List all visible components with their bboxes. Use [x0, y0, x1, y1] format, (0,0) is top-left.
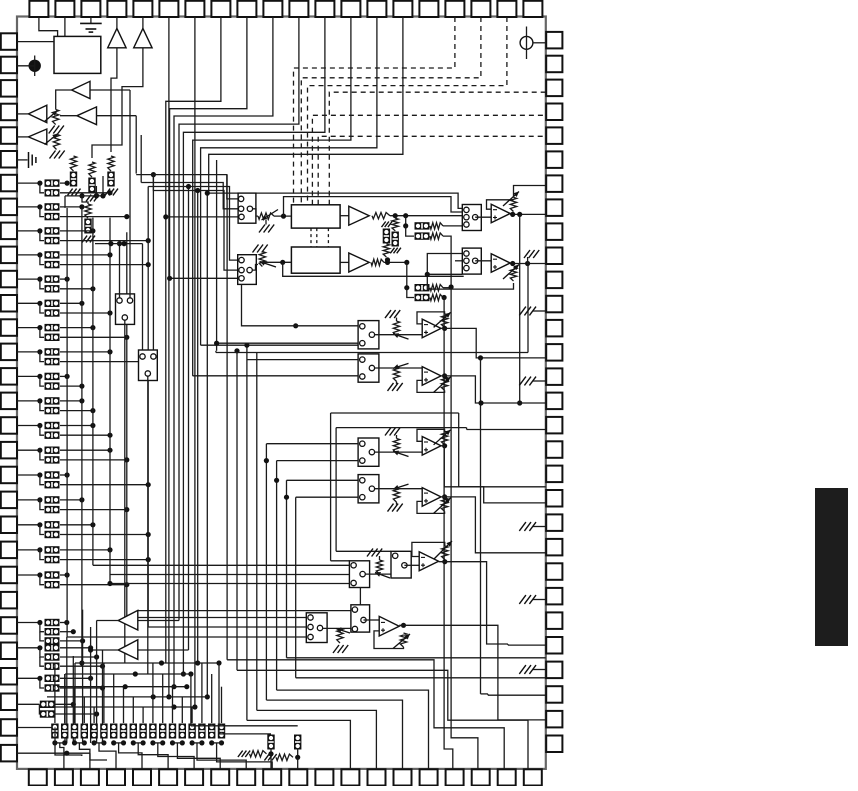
wire top pin12 elbow: [183, 17, 325, 674]
top pin 4: [107, 1, 126, 17]
wire I out: [399, 625, 546, 720]
wire clamp pair 1: [75, 742, 85, 744]
wire S1 out: [124, 321, 126, 664]
bottom pin 15: [394, 769, 412, 785]
ground row6: [333, 645, 348, 653]
right pin 14: [546, 344, 562, 361]
junction r2 a: [133, 671, 138, 676]
wire pin11 lower out: [60, 288, 93, 290]
right pin 16: [546, 393, 562, 410]
junction opamp B node: [525, 261, 530, 266]
clamp diode box 15: [198, 724, 205, 739]
wire ground r27: [533, 669, 546, 671]
wire Lh2b right: [466, 428, 468, 430]
junction pin22 upper bus: [107, 547, 112, 552]
wire row4 fb: [417, 501, 445, 513]
diode box pin11 upper: [45, 275, 60, 282]
wire pin14 upper out: [60, 351, 110, 353]
junction left pin9: [37, 228, 42, 233]
junction pin25 bus 1: [71, 629, 76, 634]
top pin 6: [159, 1, 178, 17]
wire left pin2 to dot: [17, 65, 35, 67]
diode box pin16 upper: [45, 397, 60, 404]
dashed wire top pin19: [308, 17, 507, 205]
wire clamp box 5 stem: [103, 663, 105, 723]
wire left pin18: [17, 449, 40, 451]
wire left pin25: [17, 622, 40, 624]
clamp diode box 11: [159, 724, 166, 739]
IC package body outline: [17, 17, 546, 769]
bus line Lc: [92, 218, 94, 566]
ground R-F: [50, 151, 65, 159]
substrate dot: [29, 60, 41, 72]
wire pair2 lower: [407, 288, 414, 298]
bottom pin 16: [420, 769, 438, 785]
wire n2 up: [95, 186, 97, 196]
bus line B2: [236, 351, 238, 671]
top pin 12: [315, 1, 334, 17]
junction pin28 bus b: [94, 711, 99, 716]
junction r1 a: [159, 660, 164, 665]
diode box pin20 upper: [45, 496, 60, 503]
left pin 9: [1, 223, 17, 240]
oscillator pad symbol: [520, 36, 533, 49]
junction clamp box 5: [101, 740, 106, 745]
junction left pin27: [37, 676, 42, 681]
wire pin11 lower branch: [40, 279, 44, 289]
wire top pin8 elbow: [166, 17, 221, 663]
op-amp row1: [422, 319, 441, 338]
select box row4: [358, 475, 379, 503]
varistor arrow fbB: [503, 265, 519, 280]
diode box pin25 c: [45, 637, 60, 644]
wire pin25 b branch: [40, 623, 44, 632]
bus line La: [66, 208, 68, 637]
junction clamp box 3: [82, 740, 87, 745]
bus line bb1: [66, 637, 68, 743]
wire ground r24: [533, 599, 546, 601]
ground R-E: [49, 126, 64, 134]
select box H: [391, 551, 411, 578]
select box G: [349, 561, 369, 588]
diode box pin10 lower: [45, 261, 60, 268]
diode box pin10 upper: [45, 251, 60, 258]
ground symbol r21: [519, 522, 536, 531]
junction pin6 r4: [166, 694, 171, 699]
wire Lh2 left: [330, 413, 332, 561]
wire box H to opamp G: [404, 564, 419, 566]
ground vol1: [259, 225, 274, 233]
junction pin21 lower bus: [146, 532, 151, 537]
dashed wire right pin4 cfg: [312, 115, 545, 205]
diode box clamp col C: [107, 172, 114, 187]
left pin 11: [1, 271, 17, 288]
junction clamp box 7: [121, 740, 126, 745]
select box I: [351, 605, 370, 632]
wire pin28 upper out: [55, 703, 73, 705]
wire h-C S1 third: [166, 216, 238, 218]
ground opamp B: [524, 250, 539, 258]
wire pin17 lower branch: [40, 426, 44, 436]
junction clamp box 11: [160, 740, 165, 745]
wire pin20 lower out: [60, 509, 127, 511]
wire clamp box 6 stem: [113, 674, 115, 723]
bus line Lf: [147, 187, 149, 628]
right pin 19: [546, 466, 562, 483]
ground clamp col A: [68, 189, 81, 196]
junction left pin19: [37, 472, 42, 477]
clamp cell1 box: [267, 735, 274, 750]
wire pin16 lower branch: [40, 401, 44, 411]
junction bus183 r2: [181, 671, 186, 676]
right pin 4: [546, 104, 562, 121]
junction left pin29: [52, 725, 57, 730]
wire feed b out: [443, 236, 451, 287]
wire left pin15: [17, 375, 40, 377]
diode box pin28 lower: [40, 710, 55, 717]
junction left pin13: [37, 325, 42, 330]
wire pin17 lower out: [60, 434, 110, 436]
wire opamp A fb: [487, 200, 514, 209]
wire pin12 upper out: [60, 302, 82, 304]
resistor R-F: [53, 134, 59, 149]
wire block1 out: [340, 215, 349, 217]
junction row2 out node: [478, 400, 483, 405]
junction clamp box 1: [62, 740, 67, 745]
select box row2: [358, 354, 379, 382]
wire cell2 to pin11: [297, 757, 299, 769]
fb arrow G: [434, 541, 452, 559]
wire exit r27b: [287, 657, 546, 659]
wire top pin2 to power block: [64, 17, 66, 36]
wire row3 out: [441, 446, 546, 503]
wire clamp pair 1 to pin: [79, 743, 90, 769]
feedback resistor G: [442, 546, 448, 560]
wire pin8 upper out: [60, 206, 82, 208]
junction B2 top: [234, 348, 239, 353]
wire ground r21: [533, 526, 546, 528]
wire G exit: [508, 644, 546, 646]
arrow row2: [393, 363, 409, 368]
junction 243 b: [122, 241, 127, 246]
wire pin28 lower out: [55, 713, 97, 715]
wire row3 exit: [459, 486, 546, 488]
resistor row6: [337, 628, 343, 643]
clamp diode box 7: [120, 724, 127, 739]
wire staircase p16: [277, 690, 429, 769]
clamp diode box 0: [51, 724, 58, 739]
wire pin19 lower branch: [40, 475, 44, 485]
top pin 13: [341, 1, 360, 17]
wire left pin29: [17, 727, 55, 729]
wire r1 left drop: [74, 663, 76, 743]
black side tab: [815, 488, 848, 646]
junction left pin15: [37, 374, 42, 379]
diode box pin11 lower: [45, 285, 60, 292]
junction row4 out: [442, 494, 447, 499]
wire pin21 upper out: [60, 524, 93, 526]
wire clamp pair 7: [192, 742, 202, 744]
resistor feed d: [430, 294, 443, 300]
left pin 7: [1, 175, 17, 192]
wire opamp A out down: [519, 214, 521, 403]
right pin 23: [546, 563, 562, 580]
wire pin23 upper out: [60, 574, 67, 576]
top pin 19: [497, 1, 516, 17]
bottom pin 11: [289, 769, 307, 785]
junction pin8 upper bus: [79, 204, 84, 209]
top pin 16: [419, 1, 438, 17]
junction pin12 lower bus: [107, 310, 112, 315]
resistor feed b: [430, 233, 443, 239]
wire pin15 lower out: [60, 385, 82, 387]
wire n3 up: [102, 176, 104, 196]
bus line B7: [286, 480, 288, 658]
op-amp row4: [422, 488, 441, 507]
wire clamp box 4 stem: [93, 707, 95, 723]
wire buffer B output: [92, 48, 143, 158]
wire clamp pair 6 to pin: [177, 743, 220, 769]
junction dot n1: [79, 193, 84, 198]
wire pin27 lower branch: [40, 678, 44, 688]
dashed wire block interconnect a: [310, 228, 312, 247]
left pin 5: [1, 127, 17, 144]
junction pin14 upper bus: [107, 349, 112, 354]
diode box pin7 lower: [45, 189, 60, 196]
clamp diode box 3: [81, 724, 88, 739]
wire Lh2b: [336, 427, 467, 429]
wire box G in2: [110, 583, 349, 585]
junction clamp m1: [385, 257, 390, 262]
ground symbol top: [80, 22, 102, 24]
wire pin26 c branch: [40, 657, 44, 666]
wire pin13 upper out: [60, 327, 93, 329]
top pin 8: [211, 1, 230, 17]
clamp diode box 17: [218, 724, 225, 739]
wire pin16 upper out: [60, 400, 82, 402]
feedback resistor row2: [441, 377, 447, 391]
junction pin15 upper bus: [65, 374, 70, 379]
wire clamp box 1 stem: [64, 674, 66, 723]
wire box G in1: [93, 564, 350, 566]
junction vX3 top: [205, 191, 210, 196]
junction pin19 lower bus: [146, 482, 151, 487]
wire top pin10 elbow: [174, 17, 273, 687]
junction left pin18: [37, 448, 42, 453]
wire n1 to clamp D: [82, 196, 88, 204]
wire box G out: [365, 573, 391, 575]
bottom pin 20: [524, 769, 542, 785]
junction pin25 bus 0: [64, 620, 69, 625]
junction left pin10: [37, 252, 42, 257]
diode box feed a: [415, 222, 430, 229]
junction pb2 c: [403, 223, 408, 228]
diode box clamp m2: [392, 232, 399, 247]
wire pin14 lower out: [60, 361, 148, 363]
wire vol1 to block1: [274, 215, 291, 217]
ground row4: [388, 504, 403, 512]
wire pin14 lower branch: [40, 352, 44, 362]
wire box B to opamp B: [475, 260, 491, 262]
wire h-E to S3: [153, 175, 238, 271]
wire pin9 lower branch: [40, 231, 44, 241]
bus row r5: [45, 706, 195, 708]
junction cell1: [268, 751, 273, 756]
wire feed d down staircase: [444, 298, 453, 770]
wire row2 in b: [193, 375, 358, 377]
right pin 20: [546, 490, 562, 507]
junction dot n2: [94, 193, 99, 198]
wire top pin14 elbow: [201, 17, 377, 345]
function block 1: [291, 205, 340, 228]
wire row4 out: [441, 497, 546, 553]
wire row1 in a: [242, 284, 359, 325]
top pin 5: [133, 1, 152, 17]
resistor vol 1: [258, 213, 274, 219]
wire bus row 243: [95, 243, 143, 245]
buffer T1: [118, 610, 138, 630]
wire loop block1 top: [284, 197, 464, 217]
junction clamp box 8: [131, 740, 136, 745]
bottom pin 13: [341, 769, 359, 785]
clamp diode box 16: [208, 724, 215, 739]
bus row r3: [57, 686, 187, 688]
diode box pin17 lower: [45, 432, 60, 439]
wire left pin14: [17, 351, 40, 353]
buffer T2: [118, 640, 138, 660]
junction pin20 lower bus: [124, 507, 129, 512]
wire bus 65 下: [64, 196, 66, 208]
bus line B4: [256, 353, 258, 711]
wire pin25 out 2: [60, 640, 83, 642]
bus row r2: [65, 673, 191, 675]
wire pb2 lower: [406, 226, 414, 236]
select box row3: [358, 438, 379, 466]
clamp cell2 box: [294, 735, 301, 750]
junction pb1 a: [393, 213, 398, 218]
wire left pin26: [17, 647, 40, 649]
op-amp G: [419, 552, 438, 571]
wire top pin11 elbow: [179, 17, 299, 621]
diode box pin21 upper: [45, 521, 60, 528]
diode box pin16 lower: [45, 407, 60, 414]
wire pin18 lower out: [60, 459, 127, 461]
fb arrow row4: [434, 498, 451, 514]
switch box S2: [139, 350, 158, 381]
bottom pin 9: [237, 769, 255, 785]
junction dot n3: [100, 193, 105, 198]
wire clamp pair 0 to pin: [60, 743, 64, 769]
junction left pin11: [37, 277, 42, 282]
wire box J in2: [67, 636, 306, 638]
wire box J in3: [148, 626, 306, 628]
diode box pin12 lower: [45, 309, 60, 316]
wire row2 fb: [417, 380, 445, 392]
junction pin23 upper bus: [65, 572, 70, 577]
diode box pin18 upper: [45, 447, 60, 454]
wire bus 179 to buffer T1: [138, 620, 179, 622]
wire row4 box-amp: [375, 488, 423, 490]
junction pin8 lower bus: [124, 214, 129, 219]
clamp diode box 6: [110, 724, 117, 739]
wire row2 in a: [247, 359, 358, 361]
bus line vX1: [188, 187, 190, 651]
right pin 15: [546, 368, 562, 385]
wire substrate dot stem: [34, 56, 36, 77]
resistor row1: [393, 321, 399, 336]
resistor clamp D: [85, 204, 91, 218]
bus line bb3: [82, 610, 84, 743]
dashed wire block interconnect b: [316, 228, 318, 247]
varistor arrow E: [45, 111, 58, 122]
wire pin21 lower out: [60, 534, 148, 536]
wire clamp box 15 stem: [201, 663, 203, 723]
wire pin15 lower branch: [40, 376, 44, 386]
junction bus174 r3: [171, 684, 176, 689]
ground clamp col C: [105, 189, 118, 196]
top pin 3: [81, 1, 100, 17]
arrow row5: [375, 573, 390, 579]
wire left pin10: [17, 254, 40, 256]
resistor clamp col B: [89, 162, 95, 177]
diode box pin25 b: [45, 628, 60, 635]
left pin 4: [1, 104, 17, 121]
resistor feed a: [430, 223, 443, 229]
op-amp U1: [491, 204, 510, 223]
bus line B1: [226, 175, 228, 660]
diode box clamp col B: [88, 178, 95, 193]
diode box pin9 lower: [45, 237, 60, 244]
wire clamp box 13 stem: [181, 697, 183, 723]
analog switch box B: [462, 248, 481, 274]
junction h-F: [167, 276, 172, 281]
switch box S1: [116, 294, 135, 325]
wire staircase p15: [266, 700, 402, 769]
junction clamp box 4: [92, 740, 97, 745]
right pin 26: [546, 637, 562, 654]
junction B8 top: [293, 323, 298, 328]
diode box pin8 lower: [45, 213, 60, 220]
wire exit r28b: [296, 677, 546, 679]
wire clamp box 9 stem: [142, 707, 144, 723]
wire opamp G fb: [412, 542, 445, 556]
bus row r1: [75, 662, 219, 664]
ground clamp col B: [86, 195, 99, 202]
left pin 24: [1, 592, 17, 609]
ground clamp m1: [382, 222, 393, 228]
junction pin23 lower bus: [124, 582, 129, 587]
wire pin26 b branch: [40, 648, 44, 657]
arrow row1: [393, 334, 409, 339]
left pin 12: [1, 295, 17, 312]
left pin 10: [1, 247, 17, 264]
bus line Lb: [81, 208, 83, 663]
junction 519 at 403: [517, 400, 522, 405]
top pin 2: [55, 1, 74, 17]
bus line B6: [276, 461, 278, 690]
resistor cell1: [250, 751, 267, 757]
wire left pin12: [17, 302, 40, 304]
junction B3 top: [244, 343, 249, 348]
resistor clamp m1: [383, 244, 389, 257]
resistor feed c: [430, 285, 443, 291]
wire row3 in b: [277, 460, 359, 462]
junction pin10 lower bus: [146, 262, 151, 267]
junction pin20 upper bus: [79, 497, 84, 502]
clamp diode box 1: [61, 724, 68, 739]
diode box pin19 upper: [45, 471, 60, 478]
left pin 15: [1, 368, 17, 385]
